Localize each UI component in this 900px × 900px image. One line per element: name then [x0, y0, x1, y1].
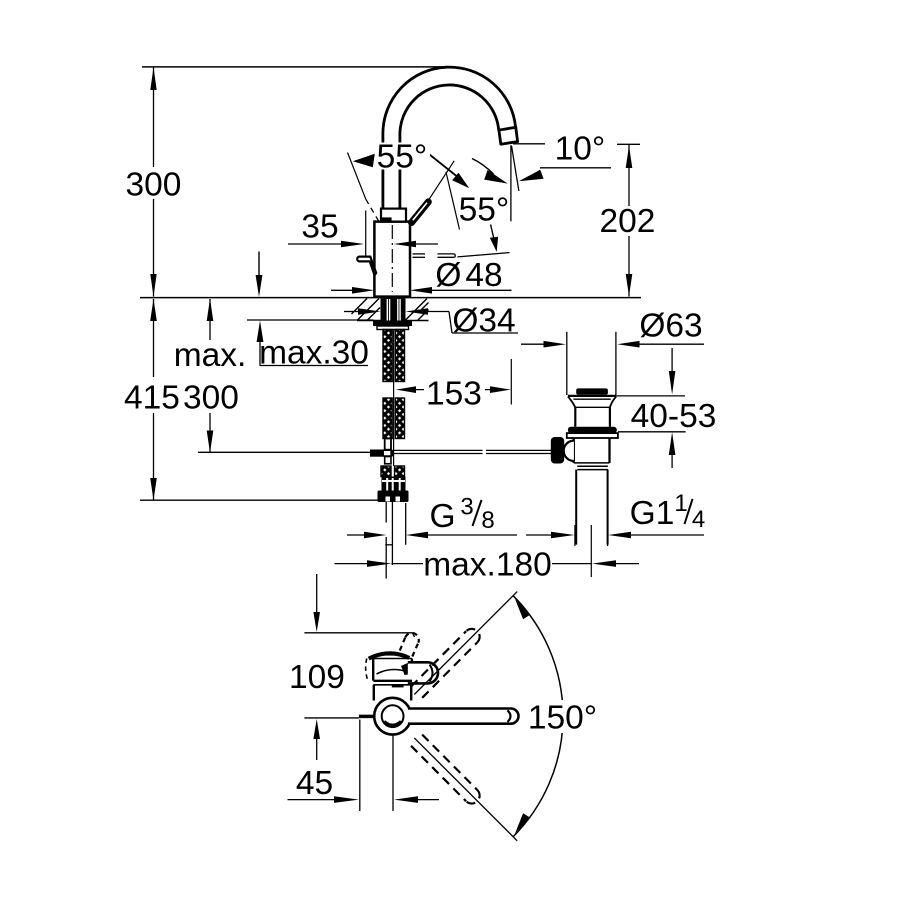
handle down axis arrow — [491, 225, 494, 238]
dimension O63 — [521, 341, 704, 348]
svg-text:Ø34: Ø34 — [452, 303, 515, 340]
body centerline — [391, 225, 393, 292]
drain neck — [574, 407, 576, 427]
10 deg label line — [540, 167, 611, 169]
hose end pin — [385, 439, 391, 450]
deck line — [140, 297, 641, 299]
water stream vertical line — [510, 145, 512, 221]
top view collar — [373, 680, 412, 682]
G3/8 tails — [385, 502, 387, 523]
svg-text:35: 35 — [301, 209, 338, 246]
dimension 40-53 — [616, 348, 685, 468]
svg-text:45: 45 — [296, 765, 333, 802]
svg-text:8: 8 — [481, 507, 494, 534]
svg-text:415: 415 — [124, 380, 180, 417]
svg-text:300: 300 — [126, 167, 182, 204]
svg-text:1: 1 — [674, 490, 687, 517]
threaded shank — [381, 298, 406, 320]
drain tailpipe — [575, 470, 577, 545]
max.30 leader — [247, 320, 374, 366]
109 bottom reference line — [304, 717, 359, 719]
202 top tick — [617, 143, 640, 145]
top view handle attach — [401, 663, 408, 675]
hose end extension line — [198, 451, 370, 453]
drain body — [573, 438, 575, 463]
svg-text:150°: 150° — [528, 700, 597, 737]
dashed spout down position — [411, 735, 480, 804]
faucet body — [374, 222, 410, 297]
svg-text:300: 300 — [183, 380, 239, 417]
hose centerline — [393, 330, 395, 467]
drain flange — [568, 395, 616, 397]
ball housing — [564, 441, 574, 461]
drain centerline — [590, 525, 592, 577]
spout arc inner — [400, 85, 499, 209]
inner circle — [382, 705, 404, 727]
hatch left — [352, 299, 381, 321]
dashed handle hidden position — [366, 199, 380, 222]
svg-text:4: 4 — [692, 506, 705, 533]
dimension 300 hose vertical — [207, 299, 214, 453]
drain: O63 extension lines — [566, 332, 568, 395]
body dome arc — [369, 653, 410, 658]
dimension max.180 — [335, 560, 640, 567]
handle axis line — [428, 161, 455, 202]
dimension 109 arrows — [313, 574, 320, 760]
svg-text:40-53: 40-53 — [631, 398, 717, 435]
collar — [381, 209, 406, 222]
drain joint rings — [577, 465, 608, 467]
55deg no1 left flank line — [348, 153, 366, 200]
solid spout bar top view — [408, 709, 519, 724]
countertop section bottom line — [357, 320, 429, 322]
dimension O34 arrows — [344, 308, 518, 333]
svg-text:202: 202 — [600, 203, 656, 240]
collar black detail — [382, 217, 392, 221]
dimension O48 — [331, 287, 512, 294]
svg-text:G1: G1 — [630, 495, 675, 532]
connector collar — [378, 491, 409, 503]
mounting washer — [373, 321, 412, 326]
10 deg arrow — [519, 170, 544, 182]
wire top extension line (spout height reference) — [142, 66, 450, 68]
dashed spout up position — [411, 629, 480, 698]
svg-text:G: G — [429, 498, 455, 535]
handle down double line — [413, 253, 426, 255]
escutcheon outer circle — [374, 698, 411, 735]
dashed handle swivel position — [400, 633, 419, 657]
rod knob top view — [359, 715, 374, 719]
svg-text:10°: 10° — [555, 131, 606, 168]
lever handle side view — [412, 202, 429, 223]
dimension max 415 vertical — [150, 299, 157, 501]
dimension 202 vertical line — [626, 144, 633, 296]
svg-text:max.: max. — [174, 337, 247, 374]
handle down axis line — [458, 253, 510, 257]
pop-up rod horizontal — [394, 449, 483, 451]
pivot nut black — [551, 437, 564, 464]
dashed arc left of body — [366, 659, 368, 680]
dimension 45 — [288, 720, 440, 812]
spout aerator joint line — [499, 127, 516, 130]
55deg no1 left arrow — [353, 154, 375, 167]
dimension 300 (spout height) vertical line — [150, 67, 156, 296]
hatch right — [405, 299, 429, 321]
pop-up rod junction — [370, 450, 383, 457]
drain o-ring — [568, 427, 617, 433]
braided hose below junction — [381, 466, 391, 477]
spout arc outer — [383, 67, 516, 208]
spout aerator cap — [499, 127, 518, 144]
svg-text:109: 109 — [289, 659, 345, 696]
max.30 deck arrow — [258, 252, 260, 277]
swivel flank lines — [414, 592, 517, 695]
svg-text:55°: 55° — [459, 192, 510, 229]
dimension 153 — [396, 359, 511, 405]
thin leader line right of handle — [446, 172, 460, 230]
braided hose lower — [383, 398, 392, 439]
drain locknut — [567, 433, 618, 438]
top view handle paddle — [408, 662, 438, 683]
drain plug cap — [576, 388, 608, 394]
stream tilted line (10 deg) — [512, 146, 519, 191]
svg-text:max.30: max.30 — [259, 335, 369, 372]
dimension G3/8 — [347, 532, 517, 539]
max415 bottom extension line — [140, 499, 380, 501]
top view body — [372, 659, 374, 681]
svg-text:max.180: max.180 — [423, 547, 552, 584]
braided hose upper — [383, 330, 392, 382]
svg-text:55°: 55° — [377, 139, 428, 176]
top view base — [373, 685, 375, 701]
washer lower strip — [377, 326, 409, 330]
crimp ferrule — [382, 477, 406, 491]
150 deg arc — [513, 596, 563, 837]
pop-up rod knob on body — [357, 257, 376, 276]
dimension G1 1/4 — [526, 525, 704, 546]
dimension 35 — [288, 211, 438, 256]
svg-text:Ø63: Ø63 — [639, 308, 702, 345]
109 top reference line — [304, 632, 412, 634]
55deg no2 arc arrow — [472, 159, 494, 175]
svg-text:3: 3 — [460, 494, 473, 521]
outlet level reference line — [513, 143, 545, 145]
55deg no1 right arrow — [430, 155, 460, 179]
svg-text:Ø48: Ø48 — [435, 257, 502, 294]
svg-text:153: 153 — [426, 376, 482, 413]
